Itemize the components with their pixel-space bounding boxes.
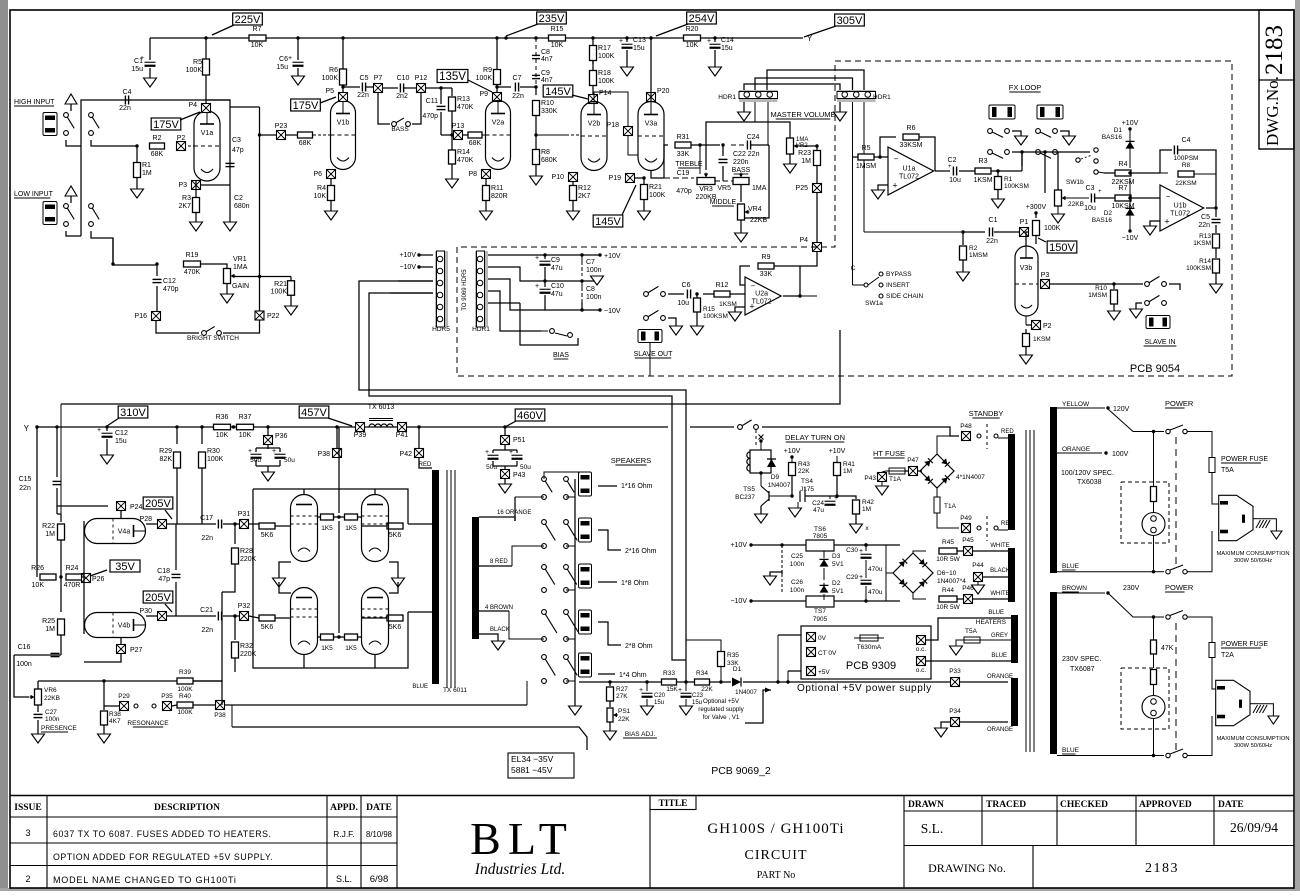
svg-text:4*1N4007: 4*1N4007 [956,474,985,481]
svg-text:R27: R27 [616,686,628,693]
mains plug 120 [1219,495,1253,540]
resistor R5 1MSM [858,154,874,160]
svg-text:P26: P26 [92,576,105,583]
svg-text:5K6: 5K6 [261,532,274,539]
resistor 1KSM v3b cathode [1025,329,1027,333]
node 205V callout b [143,591,173,603]
svg-text:35V: 35V [115,561,135,573]
ground U2a+ [735,307,745,312]
ground R14 [446,179,459,188]
svg-text:P16: P16 [135,313,148,320]
svg-text:10u: 10u [677,300,689,307]
svg-text:C5: C5 [1201,214,1210,221]
testpoint P25 [816,166,818,243]
svg-text:o.c.: o.c. [916,646,927,653]
testpoint P8 [482,170,491,179]
capacitor C9 4n7 [532,74,540,76]
jack FX return [1037,105,1063,119]
wire v3b out [1050,283,1143,285]
svg-text:P4: P4 [188,102,197,109]
svg-text:100n: 100n [45,716,60,723]
svg-text:22n: 22n [201,535,213,542]
svg-text:22n: 22n [119,105,131,112]
svg-text:PRESENCE: PRESENCE [41,725,77,732]
svg-text:1KSM: 1KSM [719,301,737,308]
capacitor C6 10u [686,290,688,299]
svg-text:100n: 100n [586,267,602,274]
svg-text:2183: 2183 [1145,861,1179,876]
header HDR1 pcb9054 [475,251,488,327]
resistor R23 [816,146,818,151]
wire relay commons [1012,151,1090,153]
bass switch [378,93,390,124]
wire fx to delay W3 [61,330,840,404]
capacitor C1 [149,38,151,60]
grey page edges [0,0,8,891]
header HDR5 vertical [435,251,448,327]
svg-text:for Valve , V1: for Valve , V1 [703,714,740,721]
svg-text:1MA: 1MA [233,264,248,271]
svg-text:C4: C4 [1182,137,1191,144]
svg-text:22n: 22n [986,238,998,245]
svg-text:DELAY TURN ON: DELAY TURN ON [785,433,845,442]
valve V2b [581,102,607,171]
svg-text:1N4007*4: 1N4007*4 [937,578,966,585]
resistor 47K bleeder [1152,615,1155,618]
svg-text:−: − [751,281,756,290]
svg-text:HIGH INPUT: HIGH INPUT [14,99,55,106]
svg-text:P43: P43 [864,475,876,482]
testpoint P3 v3b [1041,280,1050,289]
svg-text:+: + [619,38,623,45]
ground TS5 [760,506,762,514]
svg-text:V2b: V2b [588,121,601,128]
svg-text:R12: R12 [578,185,591,192]
svg-text:330K: 330K [541,108,558,115]
svg-text:22n: 22n [201,627,213,634]
svg-text:470p: 470p [422,113,438,120]
svg-text:470p: 470p [163,286,179,293]
svg-text:+300V: +300V [1026,204,1047,211]
wire hdr1 pin3 [488,279,545,310]
svg-text:254V: 254V [689,13,715,25]
testpoint P6 [327,170,336,179]
svg-text:−: − [1166,192,1171,201]
svg-text:SW1b: SW1b [1066,179,1084,186]
svg-text:D1: D1 [733,666,742,673]
testpoint P3 [192,181,201,190]
svg-text:HDR1: HDR1 [472,326,490,333]
svg-text:D9: D9 [771,474,780,481]
svg-text:C2: C2 [234,195,243,202]
svg-text:+: + [948,164,952,170]
capacitor C5 [361,83,363,92]
svg-text:P30: P30 [140,608,153,615]
svg-text:P7: P7 [374,75,383,82]
svg-text:MAXIMUM CONSUMPTION: MAXIMUM CONSUMPTION [1216,736,1289,742]
svg-text:4 BROWN: 4 BROWN [485,605,513,611]
bright switch [156,321,199,333]
resistor 1K5 a [321,514,334,520]
ground R38 [98,734,111,743]
wire R35 33K [718,652,725,667]
svg-text:P36: P36 [275,433,288,440]
svg-text:22KB: 22KB [750,217,767,224]
potentiometer VR6 22KB [35,689,42,705]
wire pot wiper to C3 [1066,197,1089,199]
fuse T5A heaters [980,639,1011,641]
svg-text:P18: P18 [607,122,620,129]
plug earth 120 [1253,518,1263,520]
svg-text:HEATERS: HEATERS [976,619,1007,626]
node 254V callout [687,12,717,24]
svg-text:MIDDLE: MIDDLE [710,199,737,206]
testpoint P20 [647,93,656,102]
diode D1 bias [732,678,741,687]
svg-text:regulated supply: regulated supply [698,706,744,713]
svg-text:100K: 100K [271,289,288,296]
svg-text:TO 9069 HDR5: TO 9069 HDR5 [462,269,468,311]
relay coil [750,450,771,473]
capacitor C22 220n [721,143,724,146]
svg-text:22n: 22n [19,485,31,492]
svg-text:1MA: 1MA [752,185,767,192]
svg-text:R36: R36 [216,414,229,421]
ground R2 fx [957,272,970,281]
svg-text:CIRCUIT: CIRCUIT [745,848,808,863]
svg-text:145V: 145V [545,86,571,98]
capacitor C2 [229,192,231,222]
svg-text:1M: 1M [843,468,852,475]
svg-text:P23: P23 [275,123,288,130]
capacitor C9 47u [543,253,546,256]
svg-text:R15: R15 [551,26,564,33]
svg-text:+10V: +10V [829,448,846,455]
svg-text:22KSM: 22KSM [1175,180,1196,187]
svg-text:100K: 100K [1044,225,1061,232]
dashed boundary PCB 9054 [457,61,1232,376]
standby feed wire [738,425,743,430]
output valve d [362,588,389,655]
capacitor 50u d [516,450,518,453]
svg-text:BLACK: BLACK [490,627,510,633]
transformer primary bar 230V [1050,592,1057,754]
ground v3b cathode [1020,355,1033,364]
node 145V callout V3a [593,215,623,227]
wire mid rail [544,267,546,287]
testpoint P44 [974,573,983,582]
title block table [10,795,1294,797]
svg-text:LOW INPUT: LOW INPUT [14,191,54,198]
svg-text:100K: 100K [177,686,193,693]
svg-text:+: + [1164,217,1169,227]
wire r28 r32 join [222,588,235,592]
svg-text:+: + [272,448,276,455]
svg-text:5V1: 5V1 [832,561,844,568]
svg-text:VR3: VR3 [699,186,713,193]
svg-text:P42: P42 [400,451,413,458]
svg-text:R35: R35 [727,652,739,659]
speaker jack 1*8 [579,564,592,588]
resistor R9 fx 33K [740,266,750,285]
wire P4 down to R9fx [800,252,817,266]
wire input loop [66,140,81,146]
wire bridge top [937,436,959,454]
svg-text:ISSUE: ISSUE [14,803,41,813]
svg-text:o.c.: o.c. [916,667,927,674]
svg-text:HDR1: HDR1 [873,94,891,101]
svg-text:100K: 100K [649,192,666,199]
svg-text:680n: 680n [234,203,250,210]
svg-text:205V: 205V [145,498,171,510]
svg-text:100n: 100n [586,294,602,301]
relay contacts row1a [988,129,993,134]
svg-text:BLUE: BLUE [412,684,428,690]
ground C25 C26 [781,570,783,574]
node 35V callout [110,560,140,572]
svg-text:P3: P3 [178,182,187,189]
resistor R19 [184,261,201,267]
svg-text:305V: 305V [837,15,863,27]
svg-text:R34: R34 [696,670,708,677]
capacitor C30 470u [864,543,867,546]
svg-text:4K7: 4K7 [109,718,121,725]
svg-text:R21: R21 [649,184,662,191]
svg-text:22n: 22n [1198,222,1210,229]
transformer primary bar 120V [1050,407,1057,573]
svg-text:1M: 1M [862,506,871,513]
svg-text:175V: 175V [293,100,319,112]
node 225V callout [233,13,263,25]
svg-text:P28: P28 [140,516,153,523]
switch SW1b selector [1076,158,1080,162]
svg-text:C3: C3 [232,137,241,144]
svg-text:−: − [894,154,899,163]
switch high input b [89,113,94,118]
svg-text:300W 50/60Hz: 300W 50/60Hz [1234,558,1272,564]
svg-text:470K: 470K [457,157,474,164]
ground R10 fx [1108,311,1121,320]
ground output cathodes b [389,562,398,578]
svg-text:−10V: −10V [1122,235,1139,242]
wire P3 to C2 [201,184,230,186]
svg-text:100n: 100n [16,661,32,668]
resistor 100K v3b [1035,213,1037,218]
svg-text:U1b: U1b [1174,203,1187,210]
slave out switch b [644,316,649,321]
svg-text:P38: P38 [214,712,226,719]
resistor R26 10K [36,427,38,577]
svg-text:2183: 2183 [1261,25,1288,75]
svg-text:+10V: +10V [1122,120,1139,127]
svg-text:BLUE: BLUE [988,610,1004,616]
wire red to xfmr [998,437,1008,439]
svg-text:GH100S / GH100Ti: GH100S / GH100Ti [707,821,844,837]
svg-text:C16: C16 [18,644,31,651]
testpoint P51 [504,427,506,435]
svg-text:C: C [851,265,856,272]
potentiometer VR5 BASS [733,178,749,185]
power fuse 230 [1209,643,1215,658]
node 175V callout V1b [291,99,321,111]
svg-text:C29: C29 [846,574,858,581]
wire hdr1 pin1 to +10V [488,254,600,256]
testpoint P41 [398,423,407,432]
svg-text:8 RED: 8 RED [490,559,508,565]
svg-text:R14: R14 [457,149,470,156]
node 305V callout [835,14,865,26]
svg-text:470p: 470p [676,188,692,195]
svg-text:47p: 47p [158,576,170,583]
resistor R29 82K [175,425,178,428]
svg-text:SLAVE OUT: SLAVE OUT [634,351,673,358]
svg-text:2*8 Ohm: 2*8 Ohm [625,643,653,650]
svg-text:PCB 9054: PCB 9054 [1130,363,1180,375]
output valve b [362,495,389,562]
capacitor C12 470p [155,262,158,265]
svg-text:POWER FUSE: POWER FUSE [1221,641,1268,648]
testpoint P4 fx [813,243,822,252]
capacitor C6 [296,36,299,39]
testpoint +5V [807,667,816,676]
wire select 230 down [1153,718,1155,756]
svg-text:50u: 50u [250,457,261,464]
wire top HT bus [150,37,803,39]
testpoint P26 [82,574,91,583]
resistor 5K6 b [387,523,403,529]
svg-text:1KSM: 1KSM [1033,336,1051,343]
svg-text:VR5: VR5 [717,185,731,192]
resistor R40 100K [177,702,193,708]
DWG number box [1259,10,1294,149]
svg-text:175V: 175V [153,119,179,131]
svg-text:Y: Y [24,424,30,433]
testpoint P1 [1020,228,1029,237]
svg-text:220n: 220n [733,159,749,166]
wire slave jack down [649,343,651,376]
svg-text:P1: P1 [1020,219,1029,226]
resistor R37 [237,424,254,430]
dashed select box 120 [1121,482,1169,543]
svg-text:+: + [639,687,643,694]
testpoint P5 [339,93,348,102]
svg-text:R25: R25 [42,618,55,625]
resistor R25 1M [60,577,62,612]
svg-text:1KSM: 1KSM [1193,240,1211,247]
testpoint P38 screen [335,425,338,428]
svg-text:−10V: −10V [604,308,621,315]
svg-text:15u: 15u [131,66,143,73]
switch mains 230 low [1154,755,1165,757]
svg-text:47p: 47p [232,147,244,154]
header HDR1 right [837,90,876,102]
svg-text:C23: C23 [692,693,704,699]
testpoint P31 [240,520,249,529]
relay contacts row1b [1036,129,1041,134]
svg-text:P6: P6 [313,171,322,178]
wire to sw matrix [1021,152,1023,171]
resistor 1K5 d [345,634,358,640]
svg-text:1K5: 1K5 [321,645,333,652]
resistor R24 470R [66,574,82,580]
resistor R28 220K [233,522,236,525]
resistor R34 22K [695,679,710,685]
svg-text:1M: 1M [45,626,55,633]
svg-text:+: + [97,427,101,434]
svg-text:10u: 10u [1084,205,1096,212]
mains plug 230 [1216,680,1250,725]
svg-text:S.L.: S.L. [336,874,352,884]
svg-text:C10: C10 [551,283,564,290]
svg-text:SPEAKERS: SPEAKERS [611,456,651,465]
svg-text:2K7: 2K7 [578,193,591,200]
ground header left [743,102,745,112]
testpoint P34 [951,718,960,727]
op-amp U1b [1160,185,1204,231]
svg-text:100K: 100K [186,67,203,74]
resistor R39 100K [177,678,193,684]
capacitor C16 100n [60,648,62,655]
svg-text:R13: R13 [457,96,470,103]
svg-text:P49: P49 [960,515,972,522]
svg-text:R15: R15 [703,306,715,313]
svg-text:+10V: +10V [784,448,801,455]
resistor R15 on bus [504,36,507,39]
testpoint P30 [158,612,167,621]
resistor R1 [136,146,138,162]
svg-text:D6−10: D6−10 [937,570,957,577]
svg-text:C7: C7 [513,75,522,82]
svg-text:+: + [859,574,863,581]
svg-text:P19: P19 [609,175,622,182]
capacitor C5 22n fx [1215,208,1217,217]
svg-text:R26: R26 [31,565,44,572]
svg-text:BLUE: BLUE [1062,563,1080,570]
svg-text:MASTER VOLUME: MASTER VOLUME [770,110,835,119]
capacitor C13 [625,36,628,39]
svg-text:POWER: POWER [1165,583,1194,592]
testpoint P36 [266,425,269,428]
resistor R14 100KSM [1215,248,1217,258]
wire bridge lv left [886,545,893,573]
svg-text:+10V: +10V [399,252,416,259]
svg-text:R11: R11 [491,185,503,192]
svg-text:Optional +5V: Optional +5V [703,698,740,705]
svg-text:POWER FUSE: POWER FUSE [1221,456,1268,463]
svg-text:TS4: TS4 [801,478,813,485]
svg-text:50u: 50u [284,457,295,464]
wire grid bias row [232,727,587,750]
svg-text:22KB: 22KB [44,695,60,702]
resistor R13 [451,88,453,96]
drawn/traced/checked table [903,796,905,889]
svg-text:33K: 33K [760,271,773,278]
svg-text:15K: 15K [666,686,678,693]
svg-text:C6: C6 [279,56,288,63]
svg-text:C8: C8 [541,49,550,56]
testpoint P9 [493,93,502,102]
resistor R31 [651,145,668,178]
valve V1b [331,101,356,170]
svg-text:R30: R30 [207,448,220,455]
resistor R18 [592,61,594,95]
svg-text:P9: P9 [479,91,488,98]
header HDR1 left [739,90,778,102]
svg-text:82K: 82K [160,456,173,463]
wire P1 to V3b [1026,232,1029,246]
svg-text:135V: 135V [439,71,466,83]
ground R3 [190,222,203,231]
